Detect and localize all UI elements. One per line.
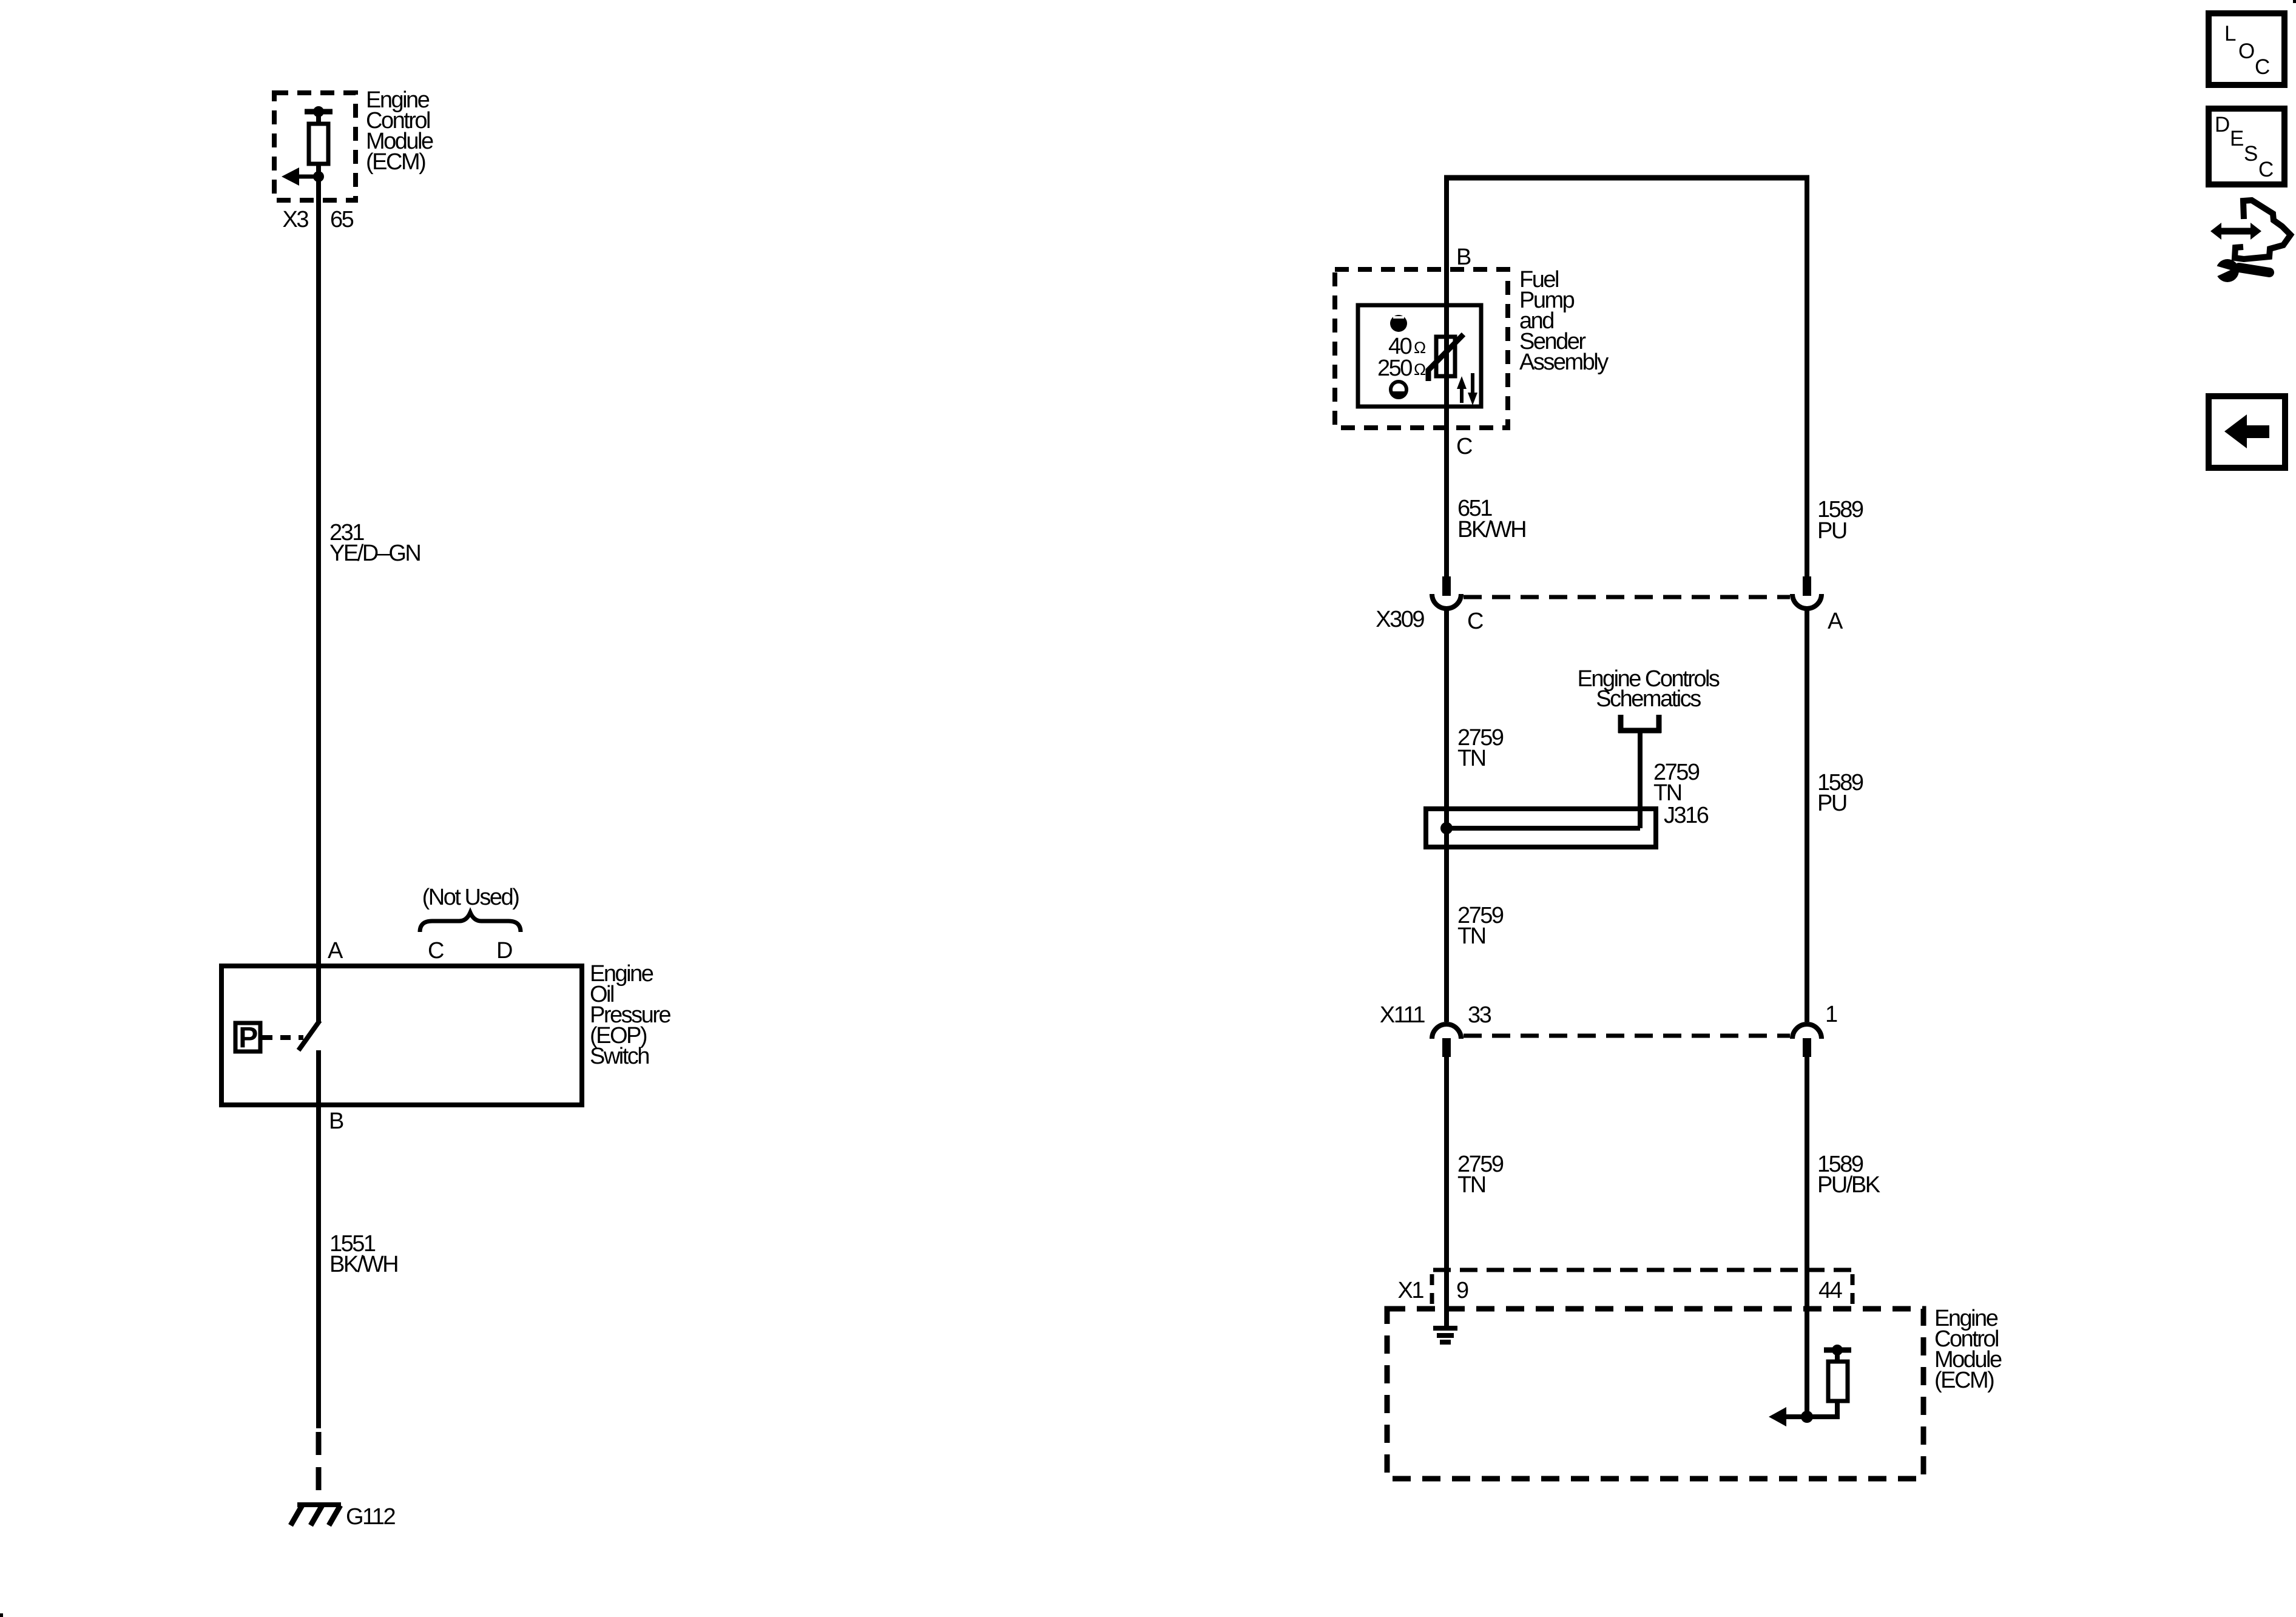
wire resistor R-ecm2 to node	[1786, 1401, 1837, 1417]
fuel pump assembly dashed box	[1335, 269, 1508, 428]
svg-text:C: C	[2255, 55, 2269, 79]
svg-text:C: C	[1456, 434, 1472, 459]
ECM U1 internal supply bar	[305, 109, 333, 115]
stub supply to resistor R-ecm2	[1835, 1350, 1840, 1363]
empty fuel circle symbol	[1391, 382, 1406, 397]
connector X111 pin 33 male tick	[1442, 1038, 1451, 1057]
svg-text:A: A	[328, 938, 343, 964]
svg-text:(Not Used): (Not Used)	[422, 885, 519, 910]
brace over pins C and D	[420, 913, 521, 932]
diagnostic icon double arrow	[2210, 223, 2261, 240]
DESC nav box	[2209, 109, 2284, 184]
resistor R-ecm2 pull-up	[1828, 1362, 1848, 1401]
dashed actuator link P to switch	[262, 1035, 303, 1040]
LOC nav box	[2209, 13, 2284, 85]
connector X309 dashed line	[1464, 595, 1790, 599]
DESC letters	[2215, 113, 2273, 181]
connector X111 pin 33 female arc	[1432, 1024, 1461, 1039]
splice junction dot J316	[1440, 822, 1453, 834]
svg-text:C: C	[428, 938, 444, 964]
wire top feed horizontal (fuel pump B to ECM 44)	[1444, 175, 1809, 181]
svg-text:1: 1	[1825, 1002, 1837, 1027]
node dot on supply bar	[313, 106, 324, 117]
off-page connector bracket	[1618, 715, 1661, 733]
dashed wire segment to ground	[316, 1432, 322, 1505]
svg-text:X309: X309	[1376, 607, 1424, 632]
connector X111 pin 1 female arc	[1792, 1024, 1822, 1039]
back nav box	[2209, 396, 2285, 468]
splice J316 internal wire	[1447, 826, 1640, 831]
svg-text:O: O	[2238, 39, 2254, 63]
LOC letters	[2224, 22, 2269, 79]
wire 1589 PU/BK to ECM	[1805, 1057, 1809, 1417]
wire 2759 TN below X309	[1444, 609, 1449, 1022]
svg-text:X1: X1	[1398, 1278, 1424, 1303]
node dot on supply bar ECM2	[1832, 1345, 1843, 1355]
up arrow fuel level	[1457, 376, 1467, 403]
svg-text:Engine ControlsSchematics: Engine ControlsSchematics	[1578, 666, 1720, 712]
variable resistor sender element	[1436, 337, 1455, 376]
full fuel dot symbol	[1390, 315, 1407, 332]
ECM module U1 dashed box (top-left Engine Control Module)	[274, 93, 356, 200]
connector X309 pin C male tick	[1442, 576, 1451, 596]
switch blade S1	[299, 1021, 320, 1050]
svg-text:EngineControlModule(ECM): EngineControlModule(ECM)	[1934, 1306, 2002, 1393]
svg-text:A: A	[1828, 609, 1843, 634]
EOP switch S1 box	[221, 966, 582, 1105]
diagnostic icon wrench	[2212, 259, 2269, 282]
wire 231 YE/D-GN vertical	[316, 177, 321, 966]
wire stub supply to resistor R-ecm1	[316, 112, 321, 125]
wire 1589 PU below X309	[1805, 609, 1809, 1022]
connector X309 pin C female arc	[1432, 594, 1461, 609]
resistor R-ecm1 (pull-up inside ECM)	[309, 124, 328, 164]
svg-text:B: B	[329, 1109, 343, 1134]
ground G112 symbol	[291, 1505, 341, 1525]
down arrow fuel level	[1468, 373, 1477, 405]
connector X111 pin 1 male tick	[1803, 1038, 1811, 1057]
connector X1 left tick dashed	[1430, 1274, 1434, 1306]
wire resistor to node	[316, 164, 321, 177]
wire pin A inside switch	[316, 966, 321, 1022]
svg-text:S: S	[2244, 142, 2257, 166]
svg-text:65: 65	[330, 207, 354, 232]
svg-text:B: B	[1456, 245, 1471, 270]
back arrow	[2224, 414, 2269, 448]
svg-text:C: C	[1467, 609, 1483, 634]
signal arrow into ECM2	[1769, 1407, 1786, 1426]
svg-text:9: 9	[1456, 1278, 1468, 1303]
svg-text:X3: X3	[283, 207, 309, 232]
wire 1589 PU vertical right	[1805, 175, 1809, 596]
svg-text:33: 33	[1468, 1002, 1491, 1028]
diagnostic icon outline shape	[2235, 200, 2291, 259]
supply bar inside ECM pin 44	[1824, 1348, 1851, 1353]
svg-text:Ω: Ω	[1414, 339, 1426, 357]
wire from schematics bracket to J316	[1638, 731, 1643, 828]
svg-text:L: L	[2224, 22, 2236, 46]
svg-text:D: D	[496, 938, 512, 964]
fuel level sender inner box	[1358, 305, 1481, 407]
connector X1 dashed line	[1433, 1268, 1854, 1272]
corner mark bottom-left	[0, 1613, 3, 1617]
svg-text:44: 44	[1818, 1278, 1843, 1303]
svg-text:J316: J316	[1664, 803, 1709, 828]
connector X309 pin A male tick	[1803, 576, 1811, 596]
junction dot ECM2 input	[1801, 1411, 1813, 1423]
svg-text:EngineControlModule(ECM): EngineControlModule(ECM)	[366, 87, 433, 175]
variable resistor arrow diagonal	[1428, 334, 1464, 381]
connector X309 pin A female arc	[1792, 594, 1822, 609]
signal arrow into ECM U1	[282, 167, 319, 186]
wire 1551 BK/WH vertical	[316, 1050, 321, 1428]
svg-text:D: D	[2215, 113, 2229, 137]
svg-text:E: E	[2230, 127, 2243, 150]
splice J316 box	[1426, 809, 1656, 847]
svg-text:Ω: Ω	[1414, 360, 1426, 379]
ECM module bottom dashed box	[1387, 1309, 1923, 1479]
connector X111 dashed line	[1464, 1034, 1790, 1038]
pressure sensor P box	[235, 1023, 260, 1052]
wire 2759 TN to ECM	[1444, 1057, 1449, 1328]
node junction dot at ECM input	[313, 171, 324, 182]
svg-text:G112: G112	[346, 1504, 396, 1530]
chassis ground inside ECM pin 9	[1433, 1328, 1457, 1342]
wire fuel pump B vertical	[1444, 175, 1449, 596]
svg-text:250: 250	[1377, 356, 1412, 381]
svg-text:X111: X111	[1380, 1002, 1425, 1028]
corner mark top-right	[2293, 0, 2296, 3]
connector X1 right tick dashed	[1851, 1274, 1855, 1306]
svg-text:C: C	[2258, 158, 2273, 181]
svg-text:P: P	[238, 1022, 257, 1054]
